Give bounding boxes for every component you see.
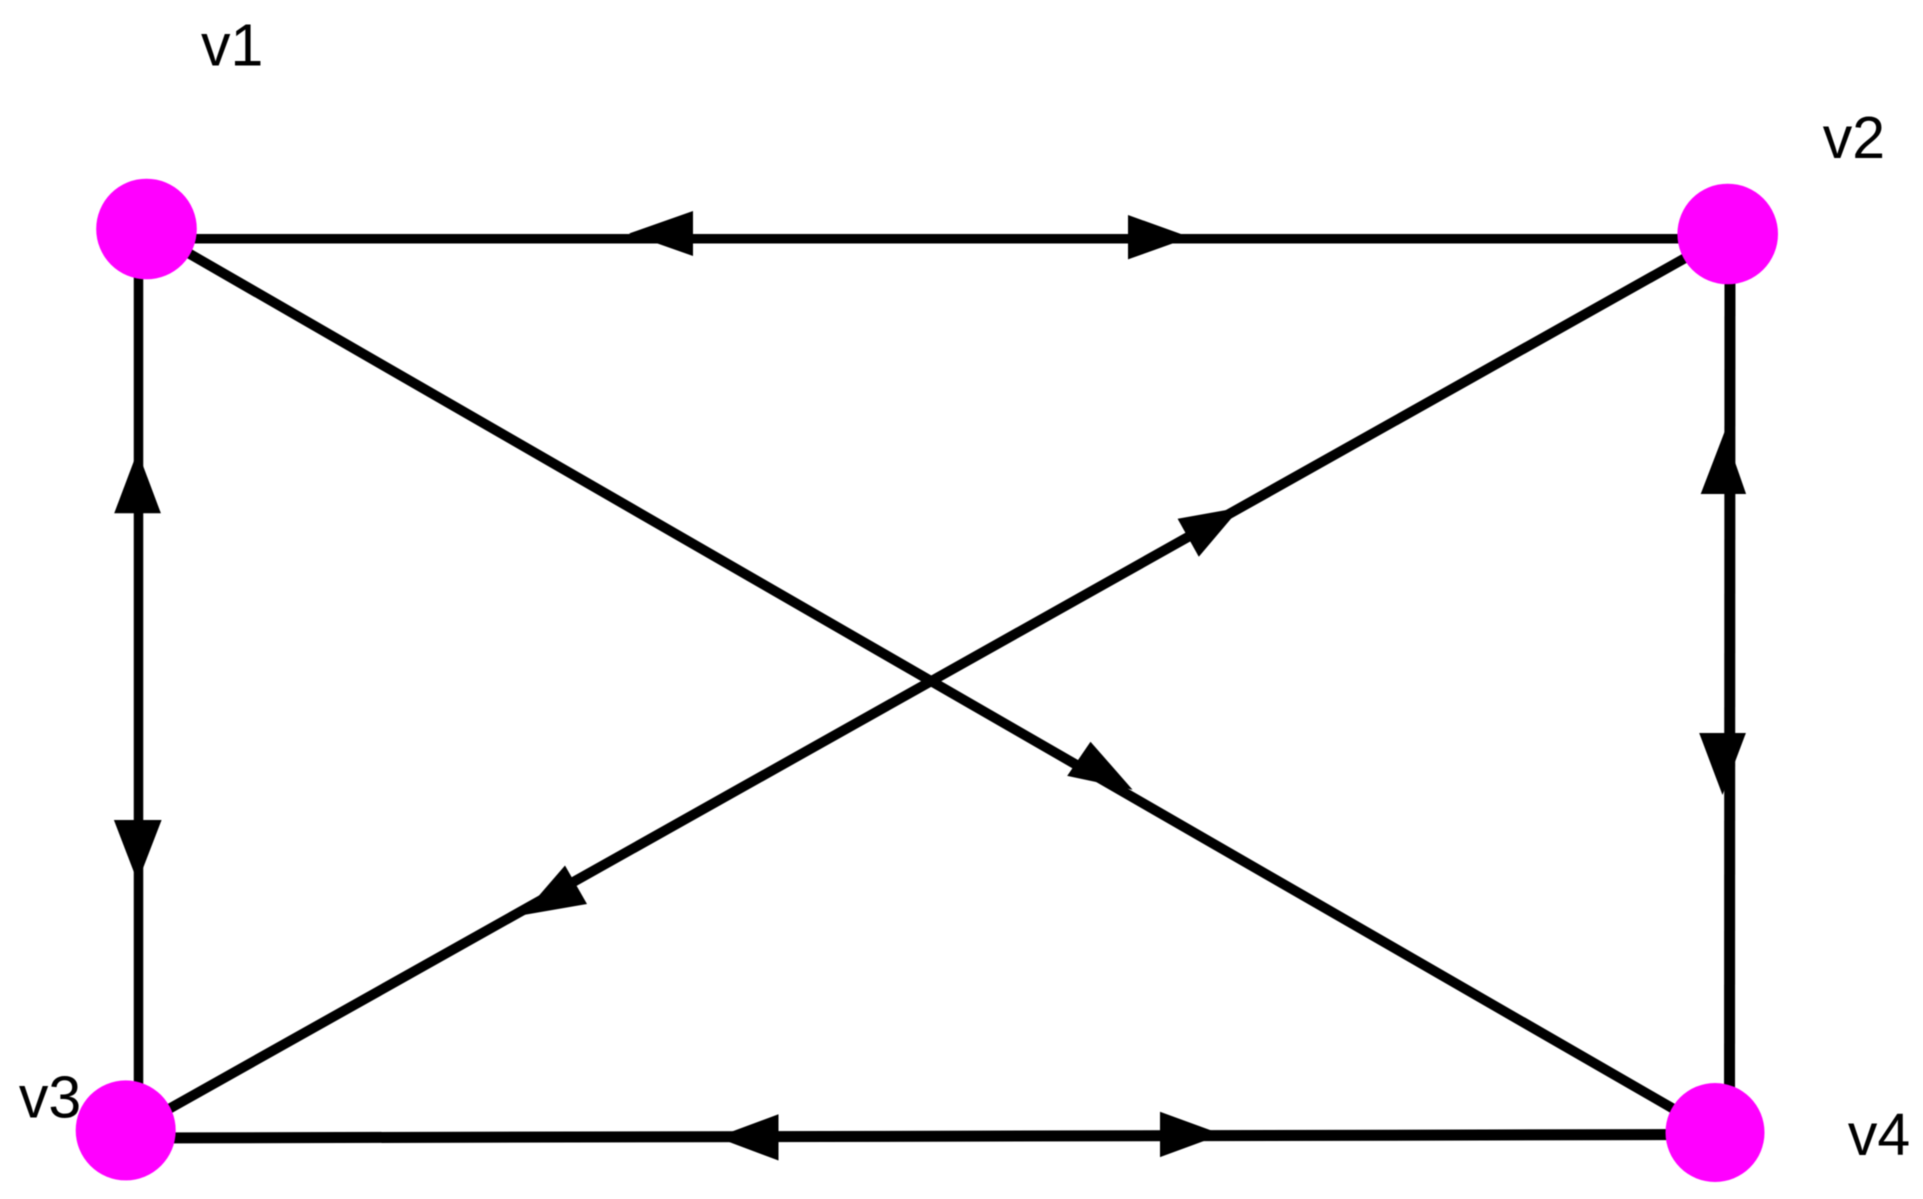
node v4: [1666, 1083, 1765, 1182]
node v3: [76, 1080, 176, 1180]
svg-text:v3: v3: [19, 1064, 81, 1130]
wire edge v3-v2 (diagonal): [126, 234, 1728, 1133]
arrowhead edge v3->v1 (left, points up): [114, 451, 161, 513]
arrowhead edge v1->v4 (diagonal, points down-right): [1067, 742, 1132, 790]
arrowhead edge v3->v4 (bottom, points right): [1160, 1112, 1222, 1157]
arrowhead edge v2->v4 (right, points down): [1699, 733, 1746, 795]
arrowhead edge v1->v3 (left, points down): [114, 820, 162, 882]
arrowhead edge v2->v1 (top, points left): [629, 211, 693, 256]
node v1: [96, 179, 197, 280]
svg-text:v4: v4: [1848, 1102, 1910, 1168]
wire edge v1-v4 (diagonal): [147, 229, 1715, 1133]
wire edge v1-v3 (left): [134, 230, 144, 1131]
node v2: [1677, 184, 1778, 285]
svg-text:v2: v2: [1823, 105, 1885, 171]
arrowhead edge v1->v2 (top, points right): [1128, 215, 1190, 259]
arrowhead edge v2->v3 (diagonal, points down-left): [522, 866, 587, 916]
wire edge v1-v2 (top): [150, 234, 1726, 244]
wire edge v3-v4 (bottom): [127, 1135, 1714, 1139]
svg-text:v1: v1: [201, 13, 263, 79]
arrowhead edge v4->v2 (right, points up): [1701, 432, 1746, 494]
arrowhead edge v4->v3 (bottom, points left): [717, 1114, 779, 1160]
wire edge v2-v4 (right): [1724, 235, 1736, 1132]
arrowhead edge v3->v2 (diagonal, points up-right): [1178, 508, 1241, 557]
